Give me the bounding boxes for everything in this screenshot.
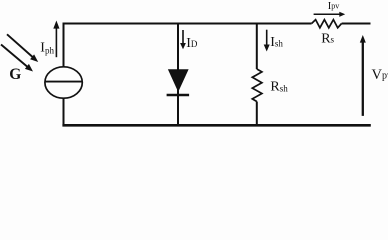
wire top rail right of Rs [342,23,371,25]
irradiance arrow G upper [7,34,38,62]
arrow ID current direction [180,30,186,49]
arrow Ipv output current [314,12,346,17]
svg-text:G: G [9,66,21,83]
resistor Rsh [252,69,262,102]
arrow Vpv output voltage [360,35,366,116]
current source Iph (photocurrent source) [45,67,82,98]
wire top rail [63,23,312,25]
wire bottom rail [62,124,370,127]
wire left branch upper [63,23,65,68]
irradiance arrow G lower [1,45,33,72]
svg-text:ID: ID [186,36,198,51]
wire shunt branch lower [256,102,258,127]
wire shunt branch upper [256,23,258,70]
resistor Rs [312,20,342,28]
arrow Ish current direction [264,30,270,52]
diode D [167,70,190,95]
svg-text:Ipv: Ipv [328,1,340,12]
wire diode branch [177,23,179,127]
arrow Iph current direction [53,21,59,58]
wire left branch lower [63,98,65,126]
